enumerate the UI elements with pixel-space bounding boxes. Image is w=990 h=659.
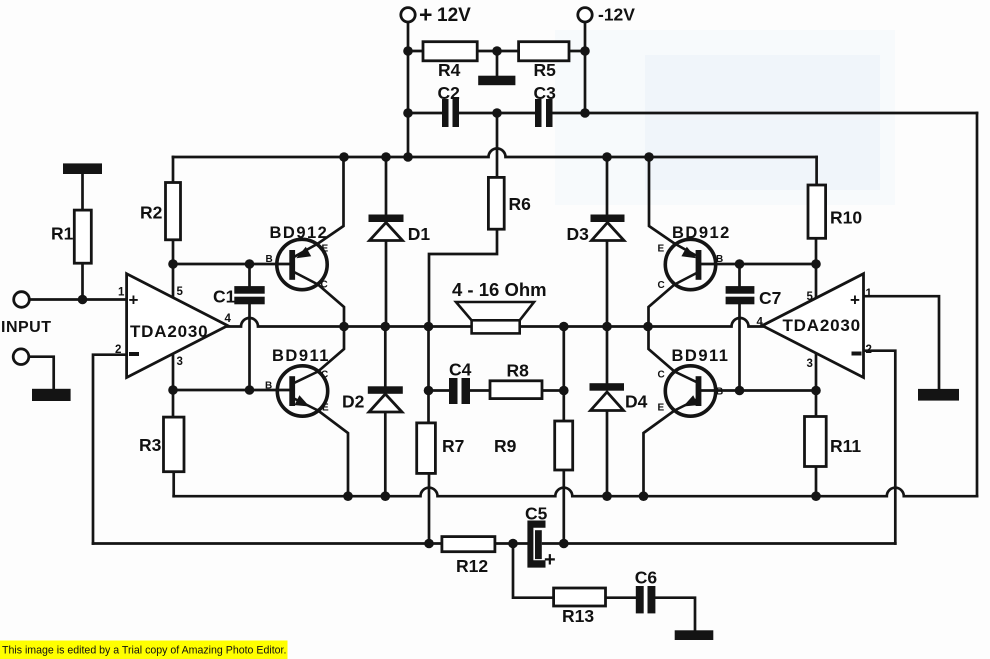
svg-text:4: 4 (757, 317, 764, 329)
svg-text:R8: R8 (507, 361, 530, 381)
wire right lower base line y=390.5 (701, 389, 816, 392)
ground right (918, 389, 959, 401)
junction D1/D2 output rail (381, 322, 391, 332)
capacitor C3 (535, 99, 542, 127)
wire R13 branch (513, 544, 695, 631)
svg-text:D2: D2 (342, 392, 365, 412)
resistor R7 (417, 423, 436, 474)
wire left pin3 riser (172, 353, 175, 417)
resistor R9 (555, 421, 573, 470)
svg-text:+: + (129, 291, 139, 310)
svg-text:R7: R7 (442, 436, 464, 456)
wire ground stem center top (496, 51, 499, 76)
junction R5/-12V (580, 46, 590, 56)
svg-text:E: E (322, 244, 329, 255)
wire right upper base line y=264 (701, 263, 816, 266)
junction pin3/R3 (168, 385, 178, 395)
ground top-left (63, 163, 102, 174)
svg-text:E: E (658, 403, 665, 414)
svg-text:C7: C7 (759, 288, 781, 308)
wire BD912 left emitter external (318, 157, 344, 244)
wire BD912 left collector external (318, 285, 344, 327)
svg-text:C: C (658, 280, 665, 291)
junction Q1/Q2 collectors output (339, 322, 349, 332)
ground bottom (675, 630, 714, 640)
capacitor C7 (726, 286, 755, 294)
junction R10/pin5 right (811, 259, 821, 269)
svg-text:B: B (266, 254, 273, 265)
wire input2 to ground (29, 357, 54, 389)
wire input to pin1 (30, 298, 127, 301)
junction D3 top rail (602, 152, 612, 162)
wire BD911 left collector external (318, 327, 344, 372)
wire R1 bottom (81, 263, 84, 299)
svg-text:C: C (321, 370, 328, 381)
svg-text:D1: D1 (408, 224, 431, 244)
wire bottom feedback row y=543.5 (93, 542, 895, 545)
transistor Q4 BD911 right (665, 366, 715, 416)
wire left pin2 feedback down (93, 355, 127, 544)
resistor R10 (808, 185, 826, 238)
junction C2 left (403, 108, 413, 118)
wire right pin2 feedback (864, 351, 896, 544)
junction R8 right (559, 386, 569, 396)
svg-text:C: C (658, 370, 665, 381)
wire +12V vertical (407, 22, 410, 157)
resistor R3 (164, 417, 185, 472)
wire R3 bottom (172, 472, 175, 497)
svg-text:R13: R13 (562, 606, 594, 626)
junction R6/R7 output rail (424, 322, 434, 332)
svg-text:BD911: BD911 (272, 347, 330, 365)
svg-text:E: E (322, 403, 329, 414)
transistor Q2 BD911 left (277, 366, 327, 416)
junction +12V/R4 (403, 46, 413, 56)
wire D1 vertical (385, 157, 388, 327)
junction pin3/R11 right (811, 386, 821, 396)
wire -12V vertical (584, 22, 587, 113)
junction D4 bottom rail (602, 491, 612, 501)
wire right pin3 riser (815, 353, 818, 417)
junction R12/C5/R13 (508, 539, 518, 549)
resistor R11 (805, 417, 827, 467)
svg-text:R11: R11 (830, 436, 861, 456)
svg-text:+: + (419, 2, 432, 28)
svg-text:+: + (850, 291, 860, 310)
wire C7 riser bottom through hop (738, 304, 741, 390)
svg-text:D3: D3 (567, 224, 590, 244)
svg-text:E: E (658, 244, 665, 255)
svg-text:INPUT: INPUT (1, 319, 52, 336)
junction D2 bottom rail (381, 491, 391, 501)
svg-text:1: 1 (866, 288, 873, 300)
diode D1 (369, 215, 404, 241)
wire right pin1 to ground (864, 296, 940, 389)
junction R11 bottom rail (811, 491, 821, 501)
wire C4/R8 row y=390.5 (429, 389, 564, 392)
wire D4 vertical (606, 327, 609, 497)
diode D3 (591, 215, 625, 241)
svg-text:R12: R12 (456, 556, 488, 576)
transistor Q1 BD912 left (277, 239, 327, 289)
junction C2/C3 midpoint (492, 108, 502, 118)
wire R7 bottom through hop (428, 473, 431, 543)
wire mid output rail y=326.5 with hops at 249.5 and 740 (228, 318, 763, 327)
op-amp U1 TDA2030 left (127, 274, 228, 378)
terminal input hot (14, 292, 30, 308)
resistor R1 (74, 210, 91, 263)
svg-text:B: B (716, 387, 723, 398)
svg-text:2: 2 (115, 344, 121, 356)
wire BD911 right emitter external (644, 411, 675, 497)
svg-text:TDA2030: TDA2030 (783, 316, 861, 335)
svg-text:R6: R6 (509, 194, 532, 214)
svg-text:1: 1 (118, 287, 125, 299)
svg-text:3: 3 (807, 358, 813, 370)
junction +12V rail (403, 152, 413, 162)
wire x=563.8 mid rail to R9 (562, 327, 565, 422)
resistor R8 (490, 381, 542, 399)
svg-text:TDA2030: TDA2030 (130, 322, 208, 341)
wire R10 riser (815, 157, 818, 185)
svg-text:3: 3 (177, 356, 183, 368)
svg-text:C: C (321, 280, 328, 291)
minus sign right op-amp (852, 352, 862, 356)
svg-text:BD912: BD912 (672, 224, 731, 242)
wire R2 riser (172, 157, 175, 183)
junction Q3 emitter rail (644, 152, 654, 162)
svg-text:R1: R1 (51, 224, 74, 244)
svg-text:C2: C2 (438, 83, 461, 103)
junction R2/pin5 (168, 259, 178, 269)
wire D3 vertical (606, 157, 609, 327)
svg-text:C4: C4 (449, 360, 472, 380)
svg-text:12V: 12V (437, 5, 471, 26)
capacitor C1 (234, 286, 264, 294)
wire bottom rail y=496.2 with hops at 429, 563.8, 895.3 (174, 488, 977, 497)
junction R9 output rail (559, 322, 569, 332)
svg-text:This image is edited by a Tria: This image is edited by a Trial copy of … (2, 645, 286, 657)
diode D4 (590, 383, 625, 410)
junction R7/R12 feedback (424, 539, 434, 549)
faint scan artifacts (555, 30, 895, 205)
wire x=428.5 mid to C4 row to R7 (427, 327, 430, 423)
junction D1 top rail (381, 152, 391, 162)
terminal -12V (578, 8, 592, 22)
wire BD911 left emitter external (318, 411, 348, 497)
wire C7 riser top (738, 264, 741, 286)
capacitor C6 (636, 586, 644, 613)
svg-text:R10: R10 (830, 208, 862, 228)
ground input (32, 389, 71, 401)
wire top +12V rail y=157 with hop at x=497 (173, 149, 817, 158)
svg-text:+: + (544, 549, 556, 571)
junction Q3/Q4 collectors output (643, 322, 653, 332)
wire C2/C3 row y=113 (408, 112, 977, 115)
svg-text:R5: R5 (534, 60, 557, 80)
svg-text:C3: C3 (534, 83, 557, 103)
resistor R6 (488, 177, 504, 229)
wire left upper base line y=264 (173, 263, 290, 266)
wire R9 bottom through hop (562, 470, 565, 544)
wire R11 bottom (815, 467, 818, 497)
junction Q4 emitter bottom rail (639, 491, 649, 501)
svg-text:5: 5 (177, 286, 184, 298)
watermark banner (0, 641, 288, 659)
svg-text:R3: R3 (139, 435, 162, 455)
wire R1 ground stem (81, 174, 84, 210)
junction D3/D4 output rail (602, 322, 612, 332)
capacitor C2 (442, 99, 449, 127)
wire left pin5 riser (172, 240, 175, 298)
capacitor C5 electrolytic (527, 521, 545, 568)
resistor R12 (442, 537, 495, 552)
resistor R2 (166, 183, 181, 240)
svg-text:C1: C1 (213, 287, 236, 307)
svg-text:5: 5 (807, 291, 814, 303)
junction C5/R9 (559, 539, 569, 549)
wire C1 riser bottom through mid-rail hop (248, 304, 251, 390)
junction Q2 emitter bottom rail (343, 491, 353, 501)
terminal input gnd (13, 349, 29, 365)
svg-text:2: 2 (866, 344, 872, 356)
wire C1 riser top (248, 264, 251, 286)
svg-text:-12V: -12V (598, 5, 635, 25)
wire BD912 right emitter external (649, 157, 675, 244)
resistor R5 (519, 42, 569, 61)
op-amp U2 TDA2030 right (762, 274, 863, 378)
junction R4/R5 midpoint (492, 46, 502, 56)
wire center vertical through hop to R6 (496, 113, 499, 177)
capacitor C4 (449, 378, 458, 404)
wire BD911 right collector external (649, 327, 675, 372)
wire left lower base line y=390 (173, 389, 290, 392)
resistor R13 (554, 588, 606, 606)
junction C7 bottom (735, 386, 745, 396)
minus sign left op-amp (129, 352, 139, 356)
wire BD912 right collector external (649, 285, 675, 327)
junction C7 top (735, 259, 745, 269)
svg-text:4 - 16 Ohm: 4 - 16 Ohm (452, 279, 547, 300)
svg-text:D4: D4 (625, 392, 648, 412)
svg-text:B: B (716, 254, 723, 265)
junction R1/input (78, 295, 88, 305)
svg-text:C6: C6 (635, 568, 658, 588)
junction C4 left (424, 386, 434, 396)
svg-text:R9: R9 (494, 436, 517, 456)
resistor R4 (423, 42, 477, 61)
junction C1 bottom (245, 385, 255, 395)
junction C1 top (245, 259, 255, 269)
diode D2 (368, 386, 403, 412)
svg-text:BD911: BD911 (672, 347, 730, 365)
wire R4/R5 row y=51 (408, 50, 585, 53)
junction C3 right (580, 108, 590, 118)
wire right pin5 riser (815, 238, 818, 298)
svg-text:BD912: BD912 (270, 224, 329, 242)
svg-text:C5: C5 (525, 504, 548, 524)
wire right edge vertical (976, 113, 979, 496)
svg-text:4: 4 (225, 313, 232, 325)
speaker 4-16 Ohm (456, 302, 534, 333)
svg-text:R4: R4 (438, 60, 461, 80)
wire D2 vertical (384, 327, 387, 497)
wire R6 bottom bend to mid rail (429, 229, 497, 326)
ground top-center (478, 76, 515, 86)
transistor Q3 BD912 right (665, 239, 715, 289)
svg-text:R2: R2 (140, 203, 163, 223)
junction Q1 emitter rail (339, 152, 349, 162)
terminal +12V (401, 8, 415, 22)
svg-text:B: B (265, 381, 272, 392)
